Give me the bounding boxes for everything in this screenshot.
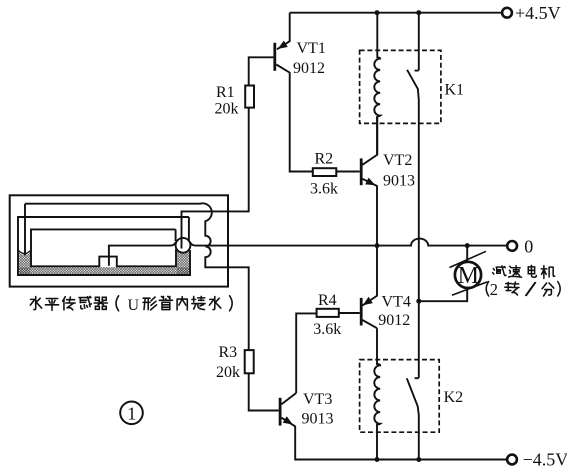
svg-text:20k: 20k: [216, 364, 240, 381]
svg-text:M: M: [458, 263, 479, 289]
svg-text:VT4: VT4: [382, 293, 411, 310]
svg-text:+4.5V: +4.5V: [515, 3, 561, 23]
svg-text:R2: R2: [315, 151, 334, 168]
svg-text:3.6k: 3.6k: [313, 321, 341, 338]
svg-text:1: 1: [127, 403, 136, 423]
svg-text:R4: R4: [318, 292, 337, 309]
svg-text:20k: 20k: [215, 101, 239, 118]
svg-text:K2: K2: [444, 389, 464, 406]
svg-text:2: 2: [490, 280, 498, 299]
svg-text:−4.5V: −4.5V: [523, 450, 567, 470]
svg-text:U: U: [128, 297, 140, 314]
svg-text:9012: 9012: [293, 60, 325, 77]
svg-text:R3: R3: [219, 344, 238, 361]
svg-text:VT2: VT2: [383, 152, 412, 169]
svg-text:9013: 9013: [302, 410, 334, 427]
svg-text:VT1: VT1: [297, 40, 326, 57]
svg-text:9013: 9013: [383, 172, 415, 189]
svg-text:3.6k: 3.6k: [310, 180, 338, 197]
svg-text:R1: R1: [216, 84, 235, 101]
svg-text:9012: 9012: [378, 312, 410, 329]
svg-text:VT3: VT3: [303, 391, 332, 408]
svg-text:0: 0: [524, 236, 533, 256]
svg-text:K1: K1: [445, 81, 465, 98]
